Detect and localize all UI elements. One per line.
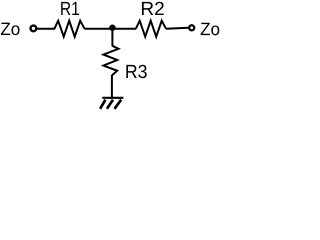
label R3 xyxy=(126,65,146,78)
resistor R3 xyxy=(103,46,118,76)
node Zo label left xyxy=(1,23,20,36)
wire R1 to node A xyxy=(85,28,113,30)
resistor R1 xyxy=(54,21,84,37)
resistor R2 xyxy=(136,21,166,37)
terminal right xyxy=(189,25,194,30)
wire left terminal to R1 xyxy=(37,28,55,30)
wire R2 to right terminal xyxy=(166,28,188,29)
node Zo label right xyxy=(201,23,220,36)
node A junction dot xyxy=(109,25,116,32)
wire node A down to R3 xyxy=(111,28,113,46)
terminal left xyxy=(31,26,37,32)
wire node A to R2 xyxy=(112,28,136,30)
ground xyxy=(100,98,123,109)
label R1 xyxy=(61,2,79,15)
wire R3 to ground xyxy=(111,75,113,98)
label R2 xyxy=(142,2,164,15)
